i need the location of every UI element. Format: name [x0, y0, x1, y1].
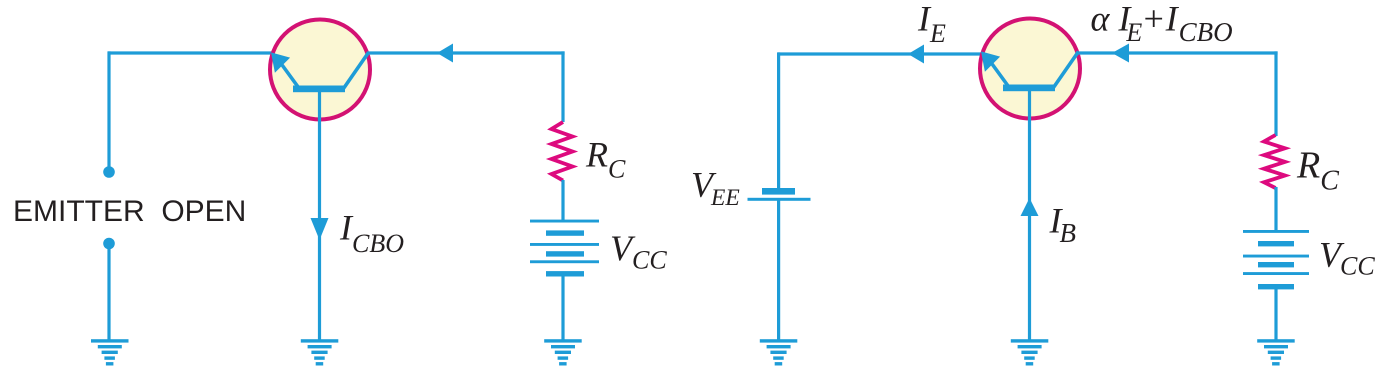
- arrow: collector current into transistor (left): [437, 44, 453, 63]
- arrow: I_CBO current direction (down): [311, 218, 329, 240]
- svg-text:EMITTER OPEN: EMITTER OPEN: [13, 195, 246, 228]
- battery V_EE (single cell): [748, 188, 811, 201]
- svg-text:VEE: VEE: [691, 165, 740, 212]
- wire: left circuit collector vertical to resistor: [561, 51, 564, 122]
- label: I_E: [917, 0, 946, 48]
- transistor Q1 (left, common-base): [270, 20, 370, 120]
- arrow: I_E current direction (left): [908, 45, 924, 64]
- svg-text:IB: IB: [1049, 200, 1077, 248]
- resistor R_C (right): [1264, 135, 1285, 188]
- label: V_CC (right): [1319, 234, 1375, 280]
- transistor Q2 (right, common-base): [980, 19, 1080, 119]
- wire: right circuit emitter horizontal: [778, 52, 983, 55]
- battery V_CC (left, 3 cells): [530, 220, 599, 277]
- arrow: I_B current direction (up): [1021, 198, 1039, 216]
- wire: between resistor and battery (left): [561, 180, 564, 222]
- ground: right circuit base: [1011, 339, 1049, 365]
- wire: battery to ground (right): [1274, 289, 1277, 341]
- wire: right circuit collector horizontal: [1077, 51, 1278, 54]
- wire: left circuit emitter vertical drop: [107, 51, 110, 167]
- wire: left circuit collector horizontal: [367, 51, 565, 54]
- battery V_CC (right, 3 cells): [1243, 230, 1309, 289]
- svg-text:RC: RC: [585, 135, 626, 184]
- label: R_C (left): [585, 135, 626, 184]
- svg-text:VCC: VCC: [1319, 234, 1375, 280]
- svg-text:IE: IE: [917, 0, 946, 48]
- label: alpha I_E + I_CBO: [1091, 0, 1233, 47]
- node: emitter-open lower terminal dot: [103, 238, 115, 250]
- ground: left emitter-open branch: [91, 339, 129, 365]
- wire: from lower dot down to ground: [107, 248, 110, 341]
- resistor R_C (left): [552, 122, 573, 181]
- arrow: collector current into transistor (right): [1112, 44, 1129, 63]
- svg-text:VCC: VCC: [610, 228, 667, 275]
- wire: right circuit left vertical to V_EE: [777, 52, 780, 189]
- wire: left circuit emitter horizontal: [108, 51, 273, 54]
- wire: right circuit base lead: [1028, 91, 1031, 341]
- ground: right circuit V_CC branch: [1257, 339, 1295, 365]
- node: emitter-open upper terminal dot: [103, 166, 115, 178]
- wire: V_EE to ground: [777, 200, 780, 341]
- label: I_B: [1049, 200, 1077, 248]
- wire: right circuit collector vertical to resistor: [1274, 51, 1277, 136]
- label: V_CC (left): [610, 228, 667, 275]
- label: I_CBO: [339, 207, 404, 257]
- wire: battery to ground (left): [561, 276, 564, 341]
- label: EMITTER OPEN: [13, 195, 246, 228]
- svg-text:RC: RC: [1296, 145, 1339, 197]
- label: R_C (right): [1296, 145, 1339, 197]
- wire: between resistor and battery (right): [1274, 187, 1277, 232]
- svg-text:α IE+ICBO: α IE+ICBO: [1091, 0, 1233, 47]
- ground: V_EE branch: [760, 339, 798, 365]
- ground: left circuit V_CC branch: [544, 339, 582, 365]
- svg-text:ICBO: ICBO: [339, 207, 404, 257]
- ground: left circuit base: [301, 339, 339, 365]
- label: V_EE: [691, 165, 740, 212]
- wire: left circuit base lead: [318, 92, 321, 341]
